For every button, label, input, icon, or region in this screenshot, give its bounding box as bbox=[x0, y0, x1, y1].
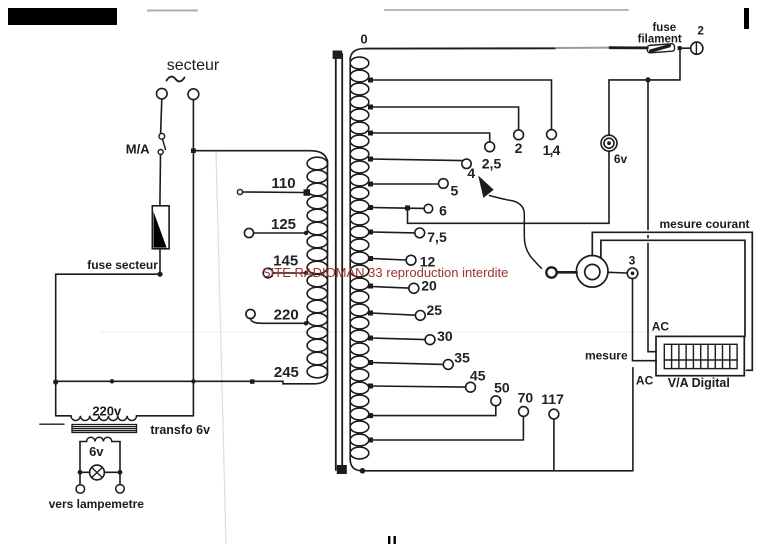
V/A digital meter U1 bbox=[656, 336, 744, 375]
svg-text:2: 2 bbox=[515, 140, 523, 156]
tap 1,4 bbox=[371, 80, 552, 130]
wire lamp row bbox=[80, 471, 90, 473]
tap 117 / bottom wire bbox=[363, 470, 633, 472]
wire bottom rail up to meter bbox=[632, 368, 634, 471]
scan artifact faint vertical bbox=[216, 150, 226, 544]
wire to primary top bbox=[193, 151, 327, 164]
terminal secteur left bbox=[157, 88, 168, 99]
scan artifact grey line right bbox=[385, 9, 628, 11]
svg-text:vers lampemetre: vers lampemetre bbox=[49, 497, 145, 511]
tap 220 terminal bbox=[246, 309, 255, 318]
wire lamp top bbox=[608, 80, 610, 135]
wire to terminal 2 bbox=[682, 47, 691, 49]
wire tap 125 bbox=[254, 232, 307, 234]
svg-text:220v: 220v bbox=[92, 403, 122, 418]
fuse filament F2 bbox=[647, 44, 675, 53]
wiper end terminal bbox=[546, 267, 556, 277]
wire up to fuse out bbox=[679, 50, 681, 80]
tap 12 bbox=[371, 259, 406, 261]
fuse secteur body F1 bbox=[152, 206, 169, 249]
tap 50 bbox=[371, 406, 496, 416]
svg-text:filament: filament bbox=[638, 34, 682, 46]
mesure courant inner loop bbox=[601, 240, 745, 336]
svg-text:117: 117 bbox=[541, 391, 564, 407]
junction dot rail left bbox=[53, 379, 58, 384]
tap 2,5 bbox=[371, 133, 490, 142]
tap 20 bbox=[371, 287, 409, 289]
svg-text:transfo 6v: transfo 6v bbox=[150, 423, 210, 437]
terminal 2 bbox=[691, 42, 703, 54]
switch M/A contact top bbox=[159, 133, 165, 139]
terminal lampemetre right bbox=[116, 485, 125, 494]
svg-text:25: 25 bbox=[427, 302, 443, 318]
svg-text:fuse: fuse bbox=[652, 22, 676, 34]
svg-text:1,4: 1,4 bbox=[543, 142, 561, 158]
svg-text:6: 6 bbox=[439, 202, 447, 218]
wire wiper to ammeter bbox=[557, 271, 577, 274]
scan artifact grey line left bbox=[148, 10, 197, 12]
svg-text:245: 245 bbox=[274, 364, 299, 381]
wire 6 tap to lamp bbox=[408, 151, 610, 223]
tap 70 bbox=[371, 416, 523, 440]
wire junction left bbox=[56, 273, 160, 275]
lamp vers lampemetre bbox=[90, 465, 105, 480]
svg-text:2,5: 2,5 bbox=[482, 155, 502, 171]
wire 0 tap top bbox=[365, 47, 556, 49]
bottom edge cut text bbox=[388, 536, 390, 544]
svg-text:50: 50 bbox=[494, 380, 510, 396]
junction dot rail bbox=[110, 379, 114, 383]
wire right secteur down bbox=[192, 100, 194, 416]
svg-text:fuse secteur: fuse secteur bbox=[87, 258, 158, 272]
redaction mark top-right edge bbox=[744, 8, 749, 29]
svg-text:110: 110 bbox=[271, 175, 295, 192]
wire fuse to junction bbox=[159, 249, 161, 274]
transformer T1 primary winding bbox=[307, 157, 327, 378]
terminal lampemetre left bbox=[76, 485, 85, 494]
svg-text:30: 30 bbox=[437, 328, 453, 344]
switch M/A contact bottom bbox=[158, 150, 163, 155]
wire tap 110 bbox=[243, 191, 305, 194]
wire left rail down bbox=[55, 274, 57, 416]
tap 45 bbox=[371, 386, 466, 387]
wire ammeter to terminal 3 bbox=[608, 271, 627, 274]
lamp 6v indicator bbox=[601, 135, 617, 151]
svg-text:45: 45 bbox=[470, 368, 486, 384]
transfo 6v core bbox=[40, 424, 137, 432]
wire fuse junction down to meter bbox=[648, 80, 656, 351]
svg-text:2: 2 bbox=[697, 25, 703, 37]
junction primary feed bbox=[191, 148, 196, 153]
tap 125 terminal bbox=[244, 228, 253, 237]
transfo 6v T2 primary winding bbox=[71, 416, 137, 421]
svg-text:3: 3 bbox=[629, 253, 636, 267]
svg-text:SITE RADIOMAN 33 reproduction: SITE RADIOMAN 33 reproduction interdite bbox=[262, 265, 508, 280]
wire secondary leads bbox=[79, 442, 81, 485]
wire tap 145 bbox=[273, 272, 307, 274]
tap 5 bbox=[371, 183, 439, 185]
wire lamp rail top bbox=[609, 79, 680, 81]
tap 2 bbox=[371, 107, 519, 130]
secondary junction dots bbox=[360, 78, 373, 474]
transfo 6v primary lead left bbox=[56, 415, 71, 417]
junction dot bbox=[645, 77, 650, 82]
ammeter current transformer bbox=[576, 255, 608, 287]
redaction bar top-left bbox=[8, 8, 117, 25]
junction dots lamp bbox=[78, 470, 83, 475]
transfo 6v primary lead right bbox=[137, 415, 194, 417]
svg-text:0: 0 bbox=[360, 32, 367, 47]
terminal 3 bbox=[627, 268, 638, 279]
wire tap 220 bbox=[251, 319, 308, 324]
svg-text:4: 4 bbox=[467, 165, 475, 181]
svg-text:6v: 6v bbox=[89, 444, 104, 459]
svg-text:AC: AC bbox=[636, 373, 654, 387]
switch M/A blade bbox=[163, 139, 166, 150]
tap 7,5 bbox=[371, 231, 415, 234]
svg-text:AC: AC bbox=[652, 320, 670, 334]
svg-text:mesure courant: mesure courant bbox=[659, 217, 749, 231]
svg-text:7,5: 7,5 bbox=[427, 229, 447, 245]
AC tilde symbol bbox=[167, 77, 185, 82]
junction fuse secteur bbox=[157, 272, 162, 277]
transformer core bbox=[335, 54, 337, 470]
terminal secteur right bbox=[188, 89, 199, 100]
wire wiper curve bbox=[490, 196, 542, 269]
svg-text:M/A: M/A bbox=[126, 142, 150, 157]
svg-text:35: 35 bbox=[454, 349, 470, 365]
wire left secteur down to switch bbox=[161, 99, 162, 133]
junction dot rail cross bbox=[191, 379, 195, 383]
tap 6 bbox=[371, 207, 424, 210]
wire terminal 3 to meter bbox=[633, 279, 657, 361]
wire primary bottom 245 tap bbox=[56, 374, 328, 384]
svg-text:secteur: secteur bbox=[167, 57, 220, 74]
selector wiper arrow bbox=[478, 176, 494, 198]
mesure courant outer loop bbox=[592, 232, 752, 370]
tap 4 bbox=[371, 159, 462, 161]
scan artifact faint horizontal bbox=[100, 331, 690, 333]
svg-text:V/A Digital: V/A Digital bbox=[668, 376, 730, 390]
tap 25 bbox=[371, 313, 415, 315]
svg-text:220: 220 bbox=[274, 306, 299, 323]
tap 145 terminal bbox=[263, 268, 273, 278]
wire switch to fuse bbox=[159, 155, 162, 207]
junction 245 rail bbox=[250, 379, 255, 384]
tap 35 bbox=[371, 363, 443, 365]
svg-text:70: 70 bbox=[518, 390, 534, 406]
junction fuse out bbox=[678, 46, 682, 50]
svg-text:125: 125 bbox=[271, 216, 296, 233]
svg-text:5: 5 bbox=[451, 182, 459, 198]
svg-text:mesure: mesure bbox=[585, 348, 628, 362]
transfo 6v T2 secondary winding bbox=[80, 437, 120, 441]
transformer T1 secondary winding bbox=[350, 49, 369, 471]
tap 30 bbox=[371, 338, 425, 340]
tap 110 terminal bbox=[237, 189, 242, 194]
svg-text:6v: 6v bbox=[614, 152, 628, 166]
